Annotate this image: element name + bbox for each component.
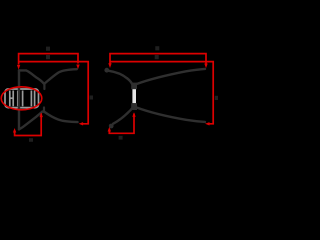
arrow L1 right	[76, 65, 79, 70]
arrow R2 end (points left)	[205, 122, 210, 125]
arrow L3 left up	[13, 128, 16, 133]
left view outline: top right flank	[45, 69, 77, 83]
label L1 value	[46, 47, 50, 51]
arrow R3 up	[108, 127, 111, 132]
label L2 value	[46, 55, 50, 59]
left view waist notch vertical (top)	[43, 84, 45, 89]
coupling cylinder (left view, striped capsule)	[5, 89, 39, 108]
label R1 value	[155, 46, 159, 50]
right view: bottom right flank	[137, 108, 205, 122]
left view outline: bottom edge to waist cusp	[19, 112, 42, 130]
label L3 value	[29, 138, 33, 142]
right view: waist bar top cap	[131, 83, 137, 90]
label R3 value	[119, 136, 123, 140]
right view: top edge to waist	[109, 71, 132, 84]
arrow R3 waist up	[132, 112, 135, 117]
dimension R3 (right view bottom, waist offset)	[109, 114, 134, 134]
arrow R1 right	[204, 64, 207, 69]
arrow L1 left	[17, 65, 20, 70]
dimension L3 (left view bottom, waist offset)	[15, 114, 42, 136]
red highlight ellipse	[1, 87, 42, 110]
right view: bottom edge to waist	[113, 108, 132, 124]
left view waist notch vertical (bottom)	[43, 108, 45, 113]
left view outline: left edge	[18, 70, 20, 129]
label R2 value	[155, 55, 159, 59]
dimension L1 (left view top width)	[19, 54, 78, 65]
label R2 height value	[215, 96, 218, 100]
arrow R1 left	[108, 63, 111, 68]
right view: waist bar bottom cap	[131, 103, 137, 110]
left view outline: bottom right flank	[45, 112, 78, 122]
arrow L2 end (points left)	[79, 122, 84, 125]
arrow L3 up	[40, 113, 43, 118]
dimension R2 (right view full width, wraps right)	[110, 62, 213, 124]
label L2 height value	[90, 96, 93, 100]
left view outline: top edge to waist notch	[19, 70, 44, 83]
right view: top-left knob	[104, 68, 109, 73]
dimension R1 (right view top width)	[110, 54, 206, 64]
right view: top right flank	[137, 69, 205, 84]
right view: waist bar white middle	[132, 89, 136, 103]
right view: bottom-left knob	[109, 124, 114, 129]
dimension L2 (left view full width, wraps right)	[19, 62, 89, 124]
